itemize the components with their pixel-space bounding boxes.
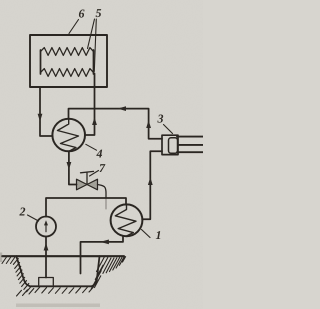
arrow: basin suction upward	[44, 243, 49, 251]
basin outline	[16, 256, 99, 286]
pipe: valve outlet jog to evaporator feed	[98, 185, 107, 199]
electric supply lines	[177, 137, 203, 153]
pump P2	[36, 217, 56, 237]
evaporator U1	[111, 204, 143, 236]
leader line to label 3	[164, 125, 173, 134]
pipe: pump suction from basin	[45, 237, 47, 278]
ground surface line	[2, 255, 124, 257]
suction strainer	[39, 278, 54, 286]
svg-text:5: 5	[96, 6, 102, 20]
compressor 3 body	[162, 135, 178, 154]
leader line to label 7	[90, 171, 99, 177]
throttle valve 7 bowtie	[77, 179, 98, 190]
leader line to label 6	[69, 20, 79, 34]
arrow: return to basin leftward	[100, 240, 109, 245]
condenser zigzag	[58, 119, 79, 151]
pipe: water line pump to evaporator top	[46, 198, 126, 217]
pump internal arrow	[45, 224, 47, 232]
faint smudge left edge	[0, 253, 2, 263]
heating coil zigzag row top 5	[41, 48, 94, 56]
paper background	[0, 0, 203, 309]
heating coil zigzag row bottom 5	[41, 69, 94, 77]
pipe: faint valve line continuation	[105, 198, 107, 209]
heating coil headers 5	[41, 50, 94, 74]
arrow: compressor vertical upward	[146, 120, 151, 128]
condenser U4	[52, 119, 85, 152]
hatching along left basin wall	[13, 259, 31, 292]
leader line to label 2	[28, 215, 39, 221]
svg-text:3: 3	[157, 112, 164, 126]
leader line to label 4	[86, 144, 97, 150]
compressor inner capsule	[169, 138, 178, 153]
hatching right of basin	[91, 257, 125, 289]
svg-text:4: 4	[96, 147, 103, 161]
arrow: radiator return downward	[38, 114, 43, 122]
svg-text:2: 2	[19, 205, 26, 219]
radiator box 6	[30, 35, 107, 87]
leader line to label 1	[142, 230, 151, 238]
arrow: riser upward	[92, 117, 97, 125]
pipe: evaporator to compressor suction	[142, 151, 162, 219]
pipe: evaporator outlet return to basin	[81, 236, 124, 274]
pipe: condenser top to compressor line	[69, 109, 163, 139]
hatching under basin bottom	[17, 287, 94, 297]
svg-text:6: 6	[79, 7, 85, 21]
pipe: radiator return drop (left)	[40, 87, 53, 136]
faint smudge bottom caption	[16, 304, 100, 308]
svg-text:1: 1	[156, 228, 162, 242]
pipe: condenser right riser to radiator	[85, 74, 95, 136]
svg-text:7: 7	[99, 161, 106, 175]
leader lines to label 5	[88, 19, 97, 72]
hatching left of basin	[2, 257, 15, 264]
pipe: condenser bottom to valve	[69, 151, 77, 184]
arrow: suction to compressor upward	[148, 177, 153, 185]
arrow: condenser to valve downward	[67, 162, 72, 170]
evaporator zigzag	[115, 205, 136, 236]
arrow: compressor discharge leftward	[118, 106, 126, 111]
throttle valve stem	[81, 171, 94, 184]
